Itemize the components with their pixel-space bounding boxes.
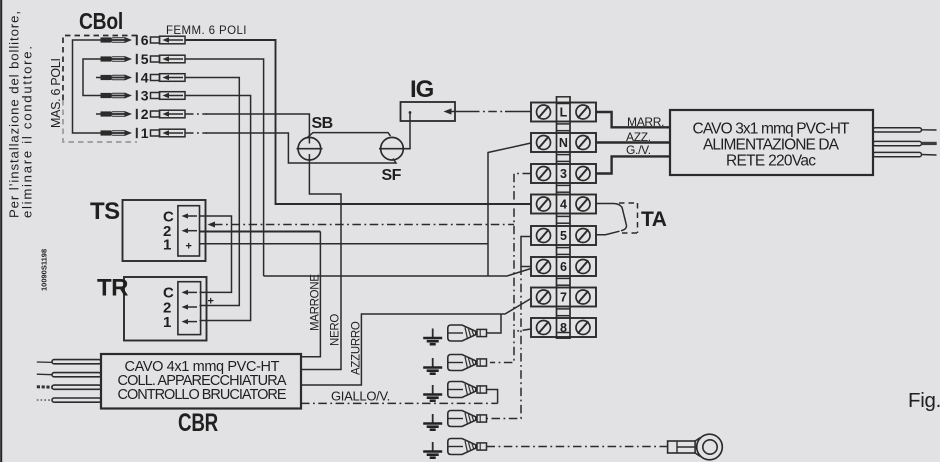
rail rung	[557, 215, 571, 217]
svg-text:MARRONE: MARRONE	[310, 274, 322, 331]
wire jumper CBol pin5-pin3	[83, 59, 101, 96]
svg-text:Fig.: Fig.	[908, 389, 940, 412]
ground symbol 4	[423, 414, 442, 430]
switch SB	[297, 115, 333, 160]
svg-text:8: 8	[560, 321, 567, 335]
sensor TR	[97, 275, 214, 341]
burner wire 3	[37, 385, 101, 389]
rail rung	[557, 123, 571, 125]
faston spade connector 4	[448, 411, 487, 427]
stub pin2	[96, 113, 101, 115]
svg-text:5: 5	[560, 229, 567, 243]
wire SB-SF top link	[307, 133, 391, 138]
svg-text:ALIMENTAZIONE DA: ALIMENTAZIONE DA	[703, 137, 840, 154]
rail rung	[557, 184, 571, 186]
wire L to mains box (MARR.)	[596, 112, 670, 127]
svg-text:CBol: CBol	[79, 8, 123, 34]
box CAVO 4x1 burner control	[101, 354, 301, 409]
wire 3 to mains box (G./V.)	[596, 156, 670, 173]
switch SF	[379, 137, 411, 184]
svg-text:4: 4	[141, 70, 149, 86]
CBol female pin 1	[151, 129, 186, 137]
wire F2 to SB (dash-dot start)	[185, 113, 207, 115]
svg-text:2: 2	[141, 106, 149, 122]
wire SB bottom to NERO	[301, 154, 341, 370]
svg-text:MARR.: MARR.	[627, 115, 664, 129]
CBol male pin 2	[101, 106, 149, 122]
wire IG to terminal L (dash-dot with arrow)	[444, 108, 452, 114]
thermostat TA	[596, 203, 667, 235]
terminal 3	[531, 164, 596, 183]
wire terminal 3 dash-dot net	[490, 174, 531, 363]
svg-text:SF: SF	[382, 167, 402, 184]
wire N to TS/T6 net	[488, 143, 531, 276]
wire F6 to terminal 4	[185, 40, 531, 204]
CBol male pin 4	[101, 70, 149, 86]
CBol male pin 6	[101, 32, 149, 48]
wire F5 down	[185, 59, 264, 276]
CBol male pin 1	[101, 125, 149, 141]
svg-text:TS: TS	[90, 198, 120, 225]
note text: Per l'installazione del bollitore, eliminare il conduttore.	[7, 11, 35, 218]
wire F3 to TR pin1	[185, 96, 251, 321]
sensor TS	[90, 198, 206, 261]
CBol female pin 2	[151, 110, 186, 118]
CBol female pin 3	[151, 92, 186, 100]
svg-text:FEMM. 6 POLI: FEMM. 6 POLI	[166, 25, 247, 37]
label NERO	[330, 314, 342, 346]
wire MARRONE branch	[301, 232, 320, 357]
wire TS.C to TR.C	[200, 216, 232, 292]
svg-text:1: 1	[141, 125, 149, 141]
svg-text:G./V.: G./V.	[626, 143, 651, 157]
wire jumper CBol pin6-pin1	[73, 40, 101, 133]
faston spade connector 5	[448, 439, 487, 455]
svg-text:L: L	[560, 106, 568, 120]
svg-text:+: +	[186, 241, 192, 253]
svg-text:IG: IG	[410, 76, 434, 103]
wire terminal 7 to AZZURRO	[301, 299, 531, 386]
wire jumper terminal5-6	[521, 237, 531, 267]
svg-text:3: 3	[141, 88, 149, 104]
svg-text:AZZURRO: AZZURRO	[351, 321, 363, 375]
ground symbol 1	[423, 329, 442, 345]
relay IG	[401, 76, 456, 121]
svg-text:1: 1	[163, 314, 171, 331]
faston spade connector 2	[448, 355, 487, 371]
stub pin4	[96, 77, 101, 79]
wire faston5 to ring lug	[487, 446, 668, 448]
ring terminal lug	[668, 434, 723, 460]
svg-text:CAVO 3x1 mmq PVC-HT: CAVO 3x1 mmq PVC-HT	[693, 121, 851, 138]
CBol male pin 5	[101, 51, 149, 67]
rail rung	[557, 154, 571, 156]
terminal 4	[531, 195, 596, 214]
svg-text:TR: TR	[97, 275, 128, 302]
terminal L	[531, 103, 596, 122]
wire dash-dot branch to TS (arrow)	[208, 222, 216, 228]
burner wire 1	[37, 360, 101, 364]
svg-text:6: 6	[560, 260, 567, 274]
mains wire 3	[873, 152, 937, 156]
terminal strip rail	[557, 96, 571, 339]
wire ground1 riser	[487, 314, 502, 333]
svg-text:NERO: NERO	[330, 314, 342, 346]
svg-text:CBR: CBR	[178, 409, 218, 437]
burner wire 4 (G/V)	[37, 398, 101, 402]
wire IG to SF	[409, 113, 411, 149]
svg-text:AZZ.: AZZ.	[626, 130, 651, 144]
box CAVO 3x1 mains supply	[670, 110, 873, 175]
burner wire 2	[37, 373, 101, 377]
faston spade connector 3	[448, 382, 487, 398]
rail rung	[557, 247, 571, 249]
terminal N	[531, 133, 596, 152]
svg-text:eliminare il conduttore.: eliminare il conduttore.	[20, 46, 35, 218]
terminal 7	[531, 288, 596, 307]
svg-text:10090S1198: 10090S1198	[40, 249, 49, 291]
CBol dashed outline	[63, 36, 137, 101]
svg-text:SB: SB	[312, 115, 333, 132]
wire N to mains box (AZZ.)	[596, 141, 670, 143]
svg-text:6: 6	[141, 32, 149, 48]
left page border line	[0, 0, 2, 462]
label AZZURRO	[351, 321, 363, 375]
terminal 6	[531, 257, 596, 276]
CBol female pin 5	[151, 55, 186, 63]
wire F4 to TR pin2	[185, 78, 239, 306]
wire faston4 dash-dot riser	[487, 267, 522, 419]
rail rung	[557, 308, 571, 310]
svg-text:5: 5	[141, 51, 149, 67]
wire TS pin1 to N net	[200, 243, 489, 245]
svg-text:3: 3	[560, 167, 567, 181]
mains wire 2	[873, 141, 937, 145]
wire terminal 8 stub	[514, 329, 531, 332]
CBol male pin 3	[101, 88, 149, 104]
svg-text:MAS. 6 POLI: MAS. 6 POLI	[49, 58, 63, 128]
MAS. 6 POLI label	[49, 58, 63, 128]
terminal 8	[531, 318, 596, 337]
svg-text:N: N	[559, 136, 568, 150]
mains wire 1	[873, 128, 937, 132]
ground symbol 2	[423, 358, 442, 374]
code 10090S1198	[40, 249, 49, 291]
svg-text:CONTROLLO BRUCIATORE: CONTROLLO BRUCIATORE	[118, 387, 287, 403]
svg-text:+: +	[208, 296, 214, 308]
ground symbol 3	[423, 385, 442, 401]
svg-text:TA: TA	[641, 208, 667, 231]
svg-text:4: 4	[560, 198, 567, 212]
CBol female pin 6	[151, 36, 186, 44]
svg-text:RETE 220Vac: RETE 220Vac	[726, 153, 816, 170]
faston spade connector 1	[448, 325, 487, 341]
wire TS pin2	[200, 231, 321, 233]
svg-text:1: 1	[163, 237, 171, 254]
CBol female pin 4	[151, 74, 186, 82]
label MARRONE	[310, 274, 322, 331]
terminal 5	[531, 226, 596, 245]
wire terminal 6 to F5/N net	[264, 269, 531, 277]
wire GIALLO/V. dash-dot to faston 3	[301, 402, 498, 404]
svg-text:7: 7	[560, 291, 567, 305]
ground symbol 5	[423, 442, 442, 458]
svg-text:GIALLO/V.: GIALLO/V.	[331, 389, 390, 404]
wire F1 to SF (dash-dot start)	[185, 132, 207, 134]
rail rung	[557, 277, 571, 279]
